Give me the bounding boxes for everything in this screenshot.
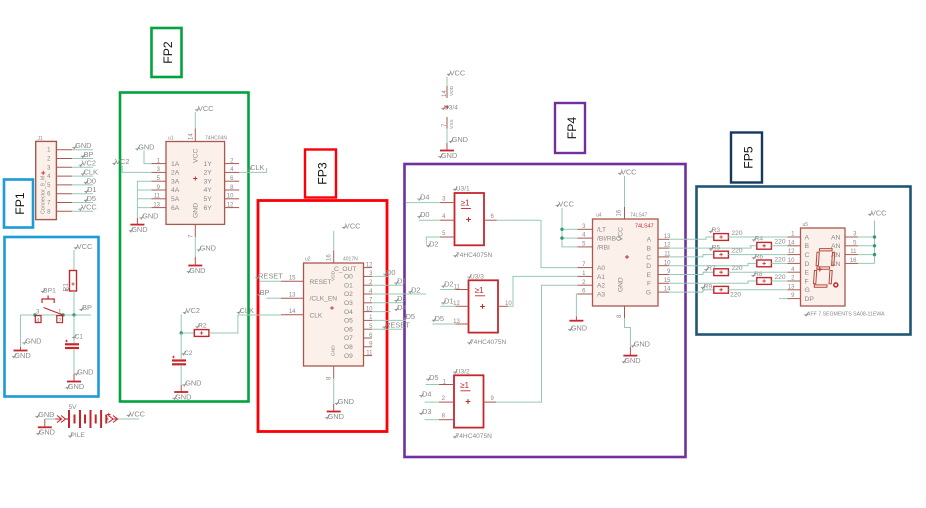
wire C2 to ground (180, 365, 182, 385)
svg-text:B: B (805, 243, 810, 250)
wire node to C1 (73, 315, 75, 343)
svg-text:14: 14 (788, 240, 795, 246)
svg-text:1A: 1A (171, 161, 180, 168)
svg-text:≥1: ≥1 (460, 381, 469, 390)
label GND (U1 pin1) with wire (135, 143, 154, 164)
svg-text:VCC: VCC (193, 149, 200, 163)
J1 pin stubs (56, 150, 72, 212)
svg-text:1Y: 1Y (204, 161, 213, 168)
svg-text:16: 16 (327, 254, 333, 261)
svg-text:VCC: VCC (345, 222, 361, 231)
or-gate U3/1 74HC4075N (453, 186, 492, 260)
wire U2 pin8 to ground (333, 379, 335, 405)
label GND (U1 pin7) (197, 244, 216, 253)
svg-text:74LS47: 74LS47 (630, 213, 647, 219)
ground (U4 A3) (568, 317, 587, 333)
U3/1 pin stubs and numbers (440, 197, 497, 237)
label D0 (U3/1) with wire (417, 210, 440, 220)
svg-text:VCC: VCC (198, 104, 214, 113)
svg-text:GND: GND (142, 212, 158, 221)
svg-text:74LS47: 74LS47 (635, 224, 654, 230)
svg-text:R1: R1 (63, 283, 70, 292)
svg-text:2A: 2A (171, 170, 180, 177)
svg-text:VC2: VC2 (186, 306, 200, 315)
svg-text:4: 4 (36, 318, 40, 324)
wire U3/2 output to U4 A2 (496, 285, 578, 402)
frame FP2 label box (152, 28, 182, 77)
svg-text:GND: GND (624, 356, 640, 365)
svg-text:R7: R7 (707, 265, 716, 272)
ground (battery) (36, 419, 55, 437)
svg-text:VCC: VCC (558, 200, 574, 209)
svg-text:VCC: VCC (618, 227, 625, 241)
svg-text:GND: GND (25, 337, 41, 346)
svg-text:VC2: VC2 (82, 159, 96, 168)
resistor R8 220 (751, 271, 786, 284)
ground (under C2) (173, 385, 192, 401)
wire U3/3 output to U4 A1 (508, 276, 578, 306)
svg-text:O4: O4 (344, 309, 353, 316)
label BP net (79, 303, 92, 312)
svg-text:D3: D3 (422, 407, 431, 416)
svg-text:O0: O0 (344, 274, 353, 281)
ground (U4 pin8) (622, 347, 641, 365)
resistor R6 220 (752, 253, 786, 266)
label RESET (U2) with wire (255, 271, 283, 281)
svg-text:≥1: ≥1 (461, 199, 470, 208)
svg-text:GND: GND (189, 266, 205, 275)
svg-text:VCC: VCC (871, 209, 887, 218)
svg-text:GND: GND (634, 340, 650, 349)
node junction dot VC2/C2 (180, 331, 183, 334)
svg-text:A1: A1 (597, 274, 605, 281)
wire R2 to CLK (209, 315, 281, 333)
wire battery plus to VCC (118, 418, 139, 420)
svg-text:AN: AN (831, 234, 841, 241)
label D4 (U3/2) with wire (419, 389, 439, 402)
svg-text:VCC: VCC (450, 69, 466, 78)
svg-text:GND: GND (175, 392, 191, 401)
wire battery minus (45, 418, 55, 420)
svg-text:BP: BP (260, 288, 270, 297)
U5 pin stubs and numbers (788, 232, 859, 300)
label GND (under C1) (74, 368, 93, 377)
capacitor C1 (65, 334, 83, 349)
svg-text:D5: D5 (429, 373, 438, 382)
connector J1 (36, 136, 57, 220)
svg-text:PILE: PILE (71, 432, 86, 439)
svg-text:AN: AN (831, 261, 841, 268)
label VC2 (U1 pin3) with wire (112, 157, 151, 172)
svg-text:GND: GND (618, 277, 625, 292)
svg-text:O5: O5 (344, 318, 353, 325)
node junction dots (U4 VCC) (560, 228, 563, 240)
svg-text:D: D (646, 263, 651, 270)
svg-text:16: 16 (850, 258, 857, 264)
svg-text:FP1: FP1 (13, 192, 27, 215)
svg-text:D2: D2 (429, 239, 438, 248)
svg-text:14: 14 (442, 90, 448, 97)
svg-text:CLK: CLK (250, 163, 264, 172)
svg-text:2Y: 2Y (204, 170, 213, 177)
frame FP3 region box (258, 201, 387, 432)
frame FP1 region box (5, 237, 99, 397)
svg-text:CLK: CLK (240, 306, 254, 315)
wire C1 to ground (73, 349, 75, 374)
ground (U1 inputs chain) (129, 218, 148, 234)
label D4 (U3/1) with wire (406, 193, 440, 203)
label D1 (U3/3) with wire (440, 297, 455, 307)
svg-text:11: 11 (850, 249, 857, 255)
svg-text:R5: R5 (712, 245, 721, 252)
label BP (U2) with wire (257, 288, 281, 298)
power VCC (battery) (127, 410, 146, 419)
7-segment digit glyph (813, 249, 838, 288)
svg-text:6A: 6A (171, 205, 180, 212)
resistor R5 220 (709, 245, 743, 258)
ground (U2 pin8) (325, 404, 344, 421)
svg-text:C1: C1 (75, 334, 84, 341)
frame FP2 region box (120, 93, 249, 402)
svg-text:VCC: VCC (77, 242, 93, 251)
svg-text:≥1: ≥1 (475, 286, 484, 295)
label D2 (U3/1) with wire (426, 237, 440, 248)
op-amp U3/4 power gate (438, 69, 468, 160)
svg-text:15: 15 (289, 276, 296, 282)
wire VC2 node to C2 (180, 333, 182, 359)
svg-text:7: 7 (189, 234, 195, 238)
or-gate U3/3 74HC4075N (467, 273, 506, 346)
IC U2 4017N (304, 254, 374, 380)
svg-text:u4: u4 (596, 213, 602, 219)
svg-text:8: 8 (442, 414, 446, 420)
svg-text:U3/3: U3/3 (470, 273, 484, 280)
svg-text:4017N: 4017N (343, 257, 358, 263)
svg-text:13: 13 (289, 292, 296, 298)
svg-text:220: 220 (730, 292, 741, 299)
U2 output nets D0-D5 and RESET (372, 268, 426, 330)
svg-text:16: 16 (617, 209, 623, 216)
svg-text:9: 9 (491, 396, 495, 402)
svg-text:GND: GND (571, 324, 587, 333)
pushbutton BP1 (35, 288, 63, 325)
node junction dots FP1 (33, 313, 75, 316)
svg-text:D2: D2 (411, 285, 420, 294)
svg-text:GND: GND (14, 351, 30, 360)
svg-text:G: G (805, 287, 810, 294)
svg-text:D0: D0 (420, 210, 429, 219)
svg-text:74HC4075N: 74HC4075N (456, 433, 493, 440)
svg-text:D1: D1 (87, 185, 96, 194)
svg-text:GND: GND (452, 135, 468, 144)
U3/3 pin stubs and numbers (453, 284, 512, 325)
svg-text:u1: u1 (168, 136, 174, 142)
svg-text:RESET: RESET (258, 271, 283, 280)
wire R1 to BP node (73, 291, 75, 315)
svg-text:VSS: VSS (449, 119, 455, 129)
svg-text:U3/2: U3/2 (456, 368, 470, 375)
svg-text:GND: GND (75, 141, 91, 150)
svg-text:GND: GND (441, 151, 457, 160)
U2 pin stubs (281, 251, 372, 379)
svg-text:RESET: RESET (385, 321, 410, 330)
svg-text:O9: O9 (344, 353, 353, 360)
svg-text:GND: GND (185, 379, 201, 388)
U3/2 pin stubs and numbers (439, 379, 496, 419)
svg-text:A3: A3 (597, 291, 605, 298)
label GND (U4 pin8) (631, 340, 650, 349)
svg-text:E: E (647, 272, 652, 279)
frame FP5 label box (731, 133, 762, 183)
svg-text:220: 220 (732, 265, 743, 272)
label GND (battery) (35, 410, 54, 419)
label AFF 7 SEGMENTS SA08-11EWA (804, 312, 885, 318)
svg-text:F: F (805, 278, 809, 285)
label GND (under C2) (182, 379, 201, 388)
svg-text:/RBI: /RBI (597, 244, 610, 251)
or-gate U3/2 74HC4075N (453, 368, 492, 440)
power VCC (U5 anodes) (868, 209, 887, 218)
svg-text:F: F (647, 281, 651, 288)
wire J1 nets with labels (72, 141, 98, 212)
svg-text:CLK: CLK (310, 312, 323, 319)
svg-text:5V: 5V (69, 404, 78, 411)
svg-text:FP4: FP4 (565, 117, 579, 140)
battery G1 PILE 5V (51, 404, 118, 439)
U1 pin stubs (151, 129, 239, 238)
svg-text:220: 220 (775, 274, 786, 281)
label GND (FP1 left) (22, 337, 41, 346)
svg-text:74HC4075N: 74HC4075N (456, 252, 493, 259)
wire U5 anodes to VCC (858, 221, 875, 264)
label GND (chain) (139, 212, 158, 221)
wire U4 outputs to resistors (669, 237, 757, 292)
U4 pin stubs and numbers (578, 207, 672, 318)
svg-text:VC2: VC2 (115, 157, 129, 166)
svg-text:O7: O7 (344, 335, 353, 342)
svg-text:A: A (647, 237, 652, 244)
label D5 (U3/2) with wire (426, 373, 439, 385)
svg-text:2: 2 (442, 396, 446, 402)
wire U1 pin7 to ground (194, 237, 196, 257)
svg-text:BP1: BP1 (43, 288, 56, 295)
svg-text:GND: GND (138, 143, 154, 152)
svg-text:2: 2 (58, 318, 62, 324)
wire resistors to display pins (728, 237, 787, 299)
svg-text:GND: GND (77, 368, 93, 377)
power VCC (U2 pin16) (334, 222, 361, 251)
svg-text:8: 8 (327, 376, 333, 380)
node junction dots (anodes) (873, 235, 876, 256)
svg-text:FP2: FP2 (161, 41, 175, 64)
wire CLK into U2 pin14 (280, 314, 282, 316)
svg-text:D1: D1 (444, 297, 453, 306)
svg-text:220: 220 (775, 256, 786, 263)
power VCC (U4 pin16) (618, 168, 637, 208)
svg-text:R2: R2 (198, 323, 207, 330)
display U5 7-segment SA08-11EWA (801, 222, 846, 306)
svg-text:D5: D5 (87, 194, 96, 203)
svg-text:10: 10 (788, 258, 795, 264)
label GND (U2 pin8) (335, 397, 354, 406)
power VCC (FP1) (74, 242, 93, 271)
svg-text:74HC4075N: 74HC4075N (470, 339, 507, 346)
svg-text:D4: D4 (397, 303, 406, 312)
svg-text:8: 8 (617, 314, 623, 318)
wire CLK from U1 pin4 with label (239, 163, 266, 172)
label D2 (U3/3) with wire (440, 280, 455, 290)
svg-text:5A: 5A (171, 196, 180, 203)
svg-text:GND: GND (200, 244, 216, 253)
svg-text:FP5: FP5 (742, 146, 756, 169)
frame FP4 region box (405, 164, 686, 457)
svg-text:R9: R9 (704, 283, 713, 290)
svg-text:BP: BP (82, 303, 92, 312)
svg-text:14: 14 (289, 309, 296, 315)
svg-text:G: G (646, 290, 651, 297)
wire U3/1 output to U4 A0 (497, 220, 578, 267)
svg-text:13: 13 (788, 284, 795, 290)
svg-text:C_OUT: C_OUT (334, 266, 356, 273)
svg-text:D0: D0 (386, 268, 395, 277)
resistor R4 220 (752, 236, 786, 250)
frame FP4 label box (555, 103, 585, 153)
svg-text:DP: DP (805, 296, 815, 303)
svg-text:VCC: VCC (129, 410, 145, 419)
svg-text:3Y: 3Y (204, 178, 213, 185)
svg-text:BP: BP (84, 150, 94, 159)
svg-text:3A: 3A (171, 178, 180, 185)
frame FP1 label box (4, 180, 33, 228)
svg-text:74HC04N: 74HC04N (205, 136, 227, 142)
svg-text:GND: GND (39, 428, 55, 437)
svg-text:D: D (805, 261, 810, 268)
IC U1 74HC04N (153, 133, 234, 238)
power VCC (U4 LT/BI/RBI) (556, 200, 578, 247)
wire BP net horizontal (21, 314, 92, 316)
svg-text:R3: R3 (712, 227, 721, 234)
svg-text:CLK: CLK (84, 168, 98, 177)
svg-text:12: 12 (788, 249, 795, 255)
svg-text:4: 4 (442, 214, 446, 220)
wire VC2 node to R2 (181, 332, 194, 334)
svg-text:VDD: VDD (449, 85, 455, 96)
svg-text:D3: D3 (397, 294, 406, 303)
svg-text:D4: D4 (420, 193, 429, 202)
resistor R1 (63, 271, 77, 292)
svg-text:U3/4: U3/4 (444, 105, 458, 112)
svg-text:GND: GND (131, 225, 147, 234)
resistor R2 (194, 323, 209, 337)
svg-text:D1: D1 (397, 277, 406, 286)
svg-text:C2: C2 (184, 350, 193, 357)
svg-text:A2: A2 (597, 283, 605, 290)
svg-text:A: A (805, 234, 810, 241)
frame FP5 region box (697, 187, 911, 335)
wire U1 inputs 3A-6A chain to ground (137, 181, 151, 218)
svg-text:O3: O3 (344, 300, 353, 307)
svg-text:u5: u5 (803, 222, 809, 228)
svg-text:5: 5 (442, 231, 446, 237)
svg-text:u2: u2 (305, 257, 311, 263)
svg-text:VCC: VCC (621, 168, 637, 177)
svg-text:A0: A0 (597, 265, 605, 272)
svg-text:GND: GND (68, 382, 84, 391)
svg-text:VCC: VCC (81, 203, 97, 212)
svg-text:D5: D5 (406, 312, 415, 321)
label VC2 (RC filter) with wire (181, 306, 200, 333)
svg-text:4Y: 4Y (204, 187, 213, 194)
svg-text:4A: 4A (171, 187, 180, 194)
U2 left pin numbers (289, 276, 296, 316)
resistor R3 220 (709, 227, 743, 240)
resistor R9 220 (701, 283, 742, 298)
svg-text:GND: GND (338, 397, 354, 406)
svg-text:D5: D5 (435, 314, 444, 323)
frame FP3 label box (305, 150, 336, 198)
svg-text:D2: D2 (444, 280, 453, 289)
svg-text:GND: GND (331, 345, 337, 356)
svg-text:GND: GND (193, 203, 200, 218)
power VCC (U1 pin14) (195, 104, 214, 129)
svg-text:B: B (647, 246, 652, 253)
wire BP1 left leg to ground (20, 315, 22, 347)
svg-text:E: E (805, 270, 810, 277)
svg-text:/CLK_EN: /CLK_EN (310, 296, 338, 303)
svg-text:6Y: 6Y (204, 205, 213, 212)
svg-text:5Y: 5Y (204, 196, 213, 203)
svg-text:O1: O1 (344, 282, 353, 289)
svg-text:220: 220 (732, 248, 743, 255)
svg-text:220: 220 (732, 230, 743, 237)
svg-text:14: 14 (189, 133, 195, 140)
svg-text:/LT: /LT (597, 227, 606, 234)
svg-text:C: C (646, 254, 651, 261)
wire U4 pin8 to ground (625, 318, 631, 347)
svg-text:GND: GND (328, 412, 344, 421)
svg-text:Connector_8_M: Connector_8_M (41, 175, 47, 214)
svg-text:D0: D0 (87, 176, 96, 185)
svg-text:O2: O2 (344, 291, 353, 298)
svg-text:D4: D4 (422, 389, 431, 398)
capacitor C2 (172, 350, 193, 364)
svg-text:3: 3 (442, 197, 446, 203)
label CLK (to U2) (237, 306, 254, 315)
svg-text:C: C (805, 252, 810, 259)
resistor R7 220 (704, 265, 743, 275)
svg-text:220: 220 (775, 239, 786, 246)
svg-text:AFF 7 SEGMENTS SA08-11EWA: AFF 7 SEGMENTS SA08-11EWA (807, 312, 885, 318)
svg-text:O8: O8 (344, 344, 353, 351)
svg-text:O6: O6 (344, 326, 353, 333)
ground (U1 pin7) (187, 257, 206, 275)
svg-text:U3/1: U3/1 (456, 186, 470, 193)
wire U4 A3 to ground (576, 294, 577, 317)
svg-text:FP3: FP3 (316, 162, 330, 185)
label D3 (U3/2) with wire (419, 407, 439, 420)
label D5 (U3/3) with wire (432, 314, 456, 324)
ground (under C1) (65, 374, 84, 391)
ground (FP1 left) (12, 347, 31, 360)
IC U4 74LS47 (593, 209, 659, 318)
svg-text:6: 6 (491, 214, 495, 220)
svg-text:J1: J1 (38, 136, 44, 142)
svg-text:RESET: RESET (310, 279, 332, 286)
